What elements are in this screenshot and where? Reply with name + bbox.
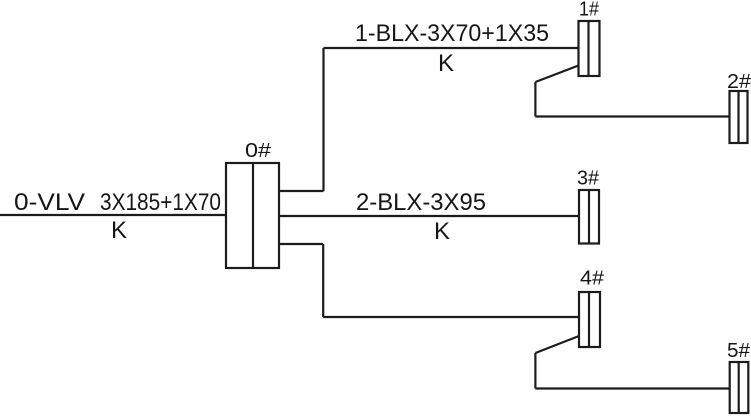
wire diagonal from bar 1# (535, 66, 578, 83)
busbar 2# (730, 91, 748, 143)
svg-text:1#: 1# (579, 0, 600, 21)
busbar 5# (730, 362, 749, 413)
busbar 3# (579, 190, 599, 244)
wire branch1 riser up (322, 48, 324, 191)
wire branch3 from box (279, 243, 323, 245)
wire run to bar 5# (535, 387, 729, 389)
transformer box 0# (226, 163, 279, 268)
wire drop to bar 2# level (534, 82, 536, 117)
svg-text:2#: 2# (727, 71, 751, 93)
wire branch3 run to bar 4# (323, 316, 579, 318)
svg-text:K: K (438, 50, 454, 77)
busbar 5# inner divider (738, 362, 740, 413)
wire run to bar 2# (535, 115, 729, 117)
busbar 3# inner divider (588, 190, 590, 244)
wire branch3 drop (322, 244, 324, 317)
wire diagonal from bar 4# (535, 336, 579, 353)
busbar 2# inner divider (737, 91, 739, 143)
svg-text:K: K (434, 218, 450, 245)
svg-text:2-BLX-3X95: 2-BLX-3X95 (356, 189, 486, 216)
svg-text:K: K (111, 217, 127, 244)
wire branch2 from box to bar 3# (279, 215, 579, 217)
svg-text:3#: 3# (577, 168, 600, 190)
transformer box 0# inner divider (252, 163, 254, 268)
wire main incoming feeder (0, 214, 226, 216)
svg-text:5#: 5# (727, 340, 751, 362)
busbar 1# (579, 21, 600, 76)
wire branch1 from box to riser (279, 190, 324, 192)
wire drop to bar 5# level (534, 353, 536, 389)
svg-text:0-VLV: 0-VLV (14, 189, 85, 216)
svg-text:1-BLX-3X70+1X35: 1-BLX-3X70+1X35 (355, 20, 549, 47)
busbar 1# inner divider (587, 21, 589, 76)
wire branch1 top run to bar 1# (324, 47, 579, 49)
svg-text:0#: 0# (245, 140, 272, 162)
svg-text:4#: 4# (580, 268, 605, 290)
busbar 4# inner divider (588, 292, 590, 347)
busbar 4# (579, 292, 600, 347)
svg-text:3X185+1X70: 3X185+1X70 (100, 189, 221, 216)
